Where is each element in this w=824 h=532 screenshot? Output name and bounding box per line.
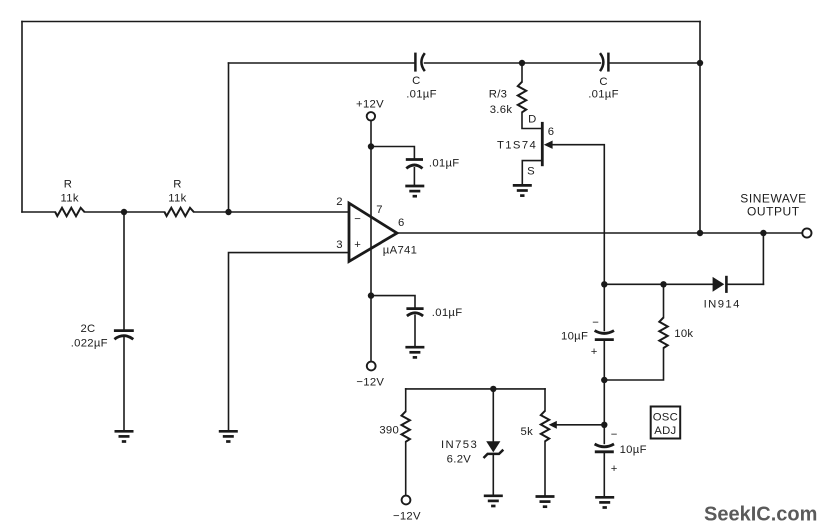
wire output row (397, 232, 803, 234)
wire op-amp pin 3 to ground column (229, 253, 350, 431)
wire zener top lead (492, 389, 494, 441)
wire FET gate to right column (553, 145, 605, 281)
node K (10uF cap / 10k bottom) (601, 377, 607, 383)
transistor Q1 gate arrowhead (544, 141, 553, 149)
wire 10k bottom lead to node (604, 348, 663, 380)
svg-text:R/3: R/3 (489, 89, 507, 101)
svg-text:R: R (173, 179, 181, 191)
svg-text:IN753: IN753 (441, 439, 478, 451)
resistor R2 11k (165, 208, 194, 216)
node C (R/3 top junction) (519, 60, 525, 66)
svg-text:+: + (591, 346, 598, 358)
wire 10k top lead (663, 284, 665, 317)
+12V terminal (367, 112, 375, 120)
svg-text:6: 6 (398, 217, 405, 229)
svg-text:10µF: 10µF (620, 444, 647, 456)
capacitor C2 .01uF (series, right) (600, 53, 608, 72)
node J (10k bottom row) (660, 281, 666, 287)
node D (right column / second rail) (697, 60, 703, 66)
ground (2C) (115, 431, 134, 441)
svg-text:D: D (528, 114, 536, 126)
op-amp U1 uA741 triangle (349, 203, 397, 261)
wire 390 bottom lead to -12V (405, 442, 407, 496)
svg-text:OUTPUT: OUTPUT (747, 205, 800, 219)
svg-text:−12V: −12V (393, 511, 421, 523)
svg-text:C: C (599, 76, 607, 88)
wire from second R to op-amp pin 2 (194, 211, 349, 213)
ground (pin 3) (219, 431, 238, 441)
svg-text:11k: 11k (168, 192, 186, 204)
wire 10uF cap 1 bottom lead (603, 341, 605, 380)
node E (+12V rail to bypass cap) (368, 143, 374, 149)
wire R/3 top lead (521, 63, 523, 82)
node F (-12V rail to bypass cap) (368, 292, 374, 298)
svg-text:6: 6 (548, 126, 555, 138)
svg-text:2: 2 (336, 196, 343, 208)
wire supply to -12V terminal (370, 296, 372, 362)
OSC ADJ box (651, 407, 681, 439)
wire second rail right segment (608, 62, 700, 64)
wire right column (699, 22, 701, 234)
svg-text:2C: 2C (80, 323, 95, 335)
wire FET source to ground (522, 161, 541, 185)
svg-text:390: 390 (379, 425, 399, 437)
svg-text:OSC: OSC (653, 411, 678, 423)
wire feedback vertical at x=228.5 (228, 63, 230, 212)
svg-text:µA741: µA741 (383, 245, 417, 257)
wire 2C branch down (123, 212, 125, 329)
ground (5k) (536, 497, 555, 507)
wire diode row left segment (604, 283, 712, 285)
wire second rail middle segment (425, 62, 601, 64)
node L (wiper node) (601, 422, 607, 428)
resistor 390 (402, 411, 410, 442)
node A (R junction / 2C) (121, 209, 127, 215)
wire zener to ground (492, 454, 494, 495)
svg-text:.01µF: .01µF (406, 89, 437, 101)
potentiometer 5k wiper arrow (549, 421, 557, 429)
wire 10uF cap 2 to ground (603, 453, 605, 497)
resistor R/3 3.6k (518, 82, 526, 113)
wire 390 top lead (405, 389, 407, 411)
svg-text:6.2V: 6.2V (447, 453, 472, 465)
wire diode row right segment (727, 283, 763, 285)
svg-text:7: 7 (376, 204, 383, 216)
wire 10uF cap 1 top lead (603, 284, 605, 330)
svg-text:+: + (611, 463, 618, 475)
svg-text:R: R (64, 179, 72, 191)
capacitor bypass .01uF (top) (406, 160, 423, 169)
transistor Q1 T1S74 channel bar (541, 122, 544, 166)
wire left column (21, 22, 23, 213)
svg-text:SeekIC.com: SeekIC.com (704, 504, 817, 526)
wire bottom rail (390 / zener / 5k) (406, 388, 545, 390)
wire supply vertical through op-amp (370, 121, 372, 296)
capacitor 10uF (lower, polarized) (595, 444, 614, 452)
resistor R1 11k (55, 208, 84, 216)
svg-text:−: − (592, 317, 599, 329)
node B (pin 2 junction) (225, 209, 231, 215)
ground (zener) (484, 496, 503, 506)
svg-text:10µF: 10µF (561, 331, 588, 343)
wire bypass cap 2 branch (371, 296, 415, 308)
svg-text:−12V: −12V (356, 377, 384, 389)
svg-text:ADJ: ADJ (654, 425, 676, 437)
svg-text:−: − (354, 214, 361, 226)
capacitor 2C .022uF (114, 331, 134, 340)
svg-text:IN914: IN914 (704, 299, 741, 311)
wire bypass cap 1 to ground (413, 168, 415, 185)
ground (FET source) (513, 185, 532, 195)
wire bypass cap 2 to ground (414, 315, 416, 346)
svg-text:5k: 5k (521, 426, 534, 438)
potentiometer 5k body (541, 411, 549, 442)
zener diode IN753 (484, 441, 504, 458)
ground (bypass cap 1) (405, 186, 424, 196)
capacitor bypass .01uF (bottom) (406, 309, 423, 316)
ground (10uF lower) (595, 497, 614, 507)
wire left row to R (22, 211, 55, 213)
svg-text:.022µF: .022µF (71, 337, 108, 349)
node H (output / diode branch) (760, 230, 766, 236)
wire top rail (22, 21, 700, 23)
wire 5k bottom lead to ground (544, 441, 546, 495)
svg-text:.01µF: .01µF (432, 307, 463, 319)
wire bypass cap 1 branch (371, 147, 414, 159)
capacitor C1 .01uF (series, left) (415, 53, 424, 72)
svg-text:+12V: +12V (356, 98, 384, 110)
wire second rail left segment (229, 62, 416, 64)
wire node to wiper node (603, 380, 605, 425)
resistor 10k (659, 318, 667, 349)
svg-text:.01µF: .01µF (588, 89, 619, 101)
wire 2C to ground (123, 337, 125, 431)
diode D1 IN914 (713, 276, 727, 293)
svg-text:11k: 11k (61, 192, 79, 204)
-12V supply terminal (367, 362, 376, 371)
svg-text:−: − (611, 429, 618, 441)
svg-text:SINEWAVE: SINEWAVE (740, 191, 806, 205)
node G (output / right column) (697, 230, 703, 236)
svg-text:10k: 10k (674, 328, 693, 340)
wire 5k top lead (544, 389, 546, 411)
wire output down to diode row (762, 233, 764, 284)
-12V terminal (390) (402, 496, 411, 505)
svg-text:3: 3 (336, 239, 343, 251)
output terminal (802, 228, 811, 237)
capacitor 10uF (upper, polarized) (595, 331, 614, 340)
svg-text:C: C (412, 75, 420, 87)
svg-text:.01µF: .01µF (429, 158, 460, 170)
node I (gate line / diode row) (601, 281, 607, 287)
wire between the two R resistors (85, 211, 165, 213)
wire 10uF cap 2 top lead (603, 425, 605, 444)
wire R/3 bottom lead to FET drain (522, 112, 541, 128)
wire 5k wiper arm (556, 424, 604, 426)
svg-text:S: S (527, 165, 535, 177)
svg-text:3.6k: 3.6k (490, 104, 513, 116)
ground (bypass cap 2) (405, 347, 424, 357)
svg-text:T1S74: T1S74 (497, 140, 537, 152)
node M (zener top) (490, 386, 496, 392)
svg-text:+: + (354, 239, 361, 251)
